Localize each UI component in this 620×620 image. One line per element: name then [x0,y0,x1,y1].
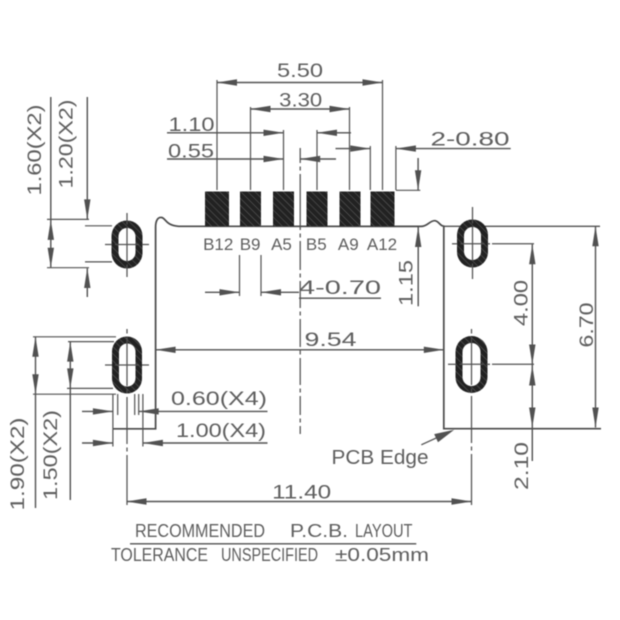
svg-text:0.60(X4): 0.60(X4) [171,389,267,410]
svg-text:1.00(X4): 1.00(X4) [176,421,266,442]
svg-text:B5: B5 [306,235,327,254]
svg-text:B12: B12 [203,235,233,254]
svg-text:UNSPECIFIED: UNSPECIFIED [221,545,318,565]
svg-text:B9: B9 [240,235,261,254]
svg-text:1.90(X2): 1.90(X2) [8,418,29,511]
svg-text:A9: A9 [338,235,359,254]
svg-text:4-0.70: 4-0.70 [299,278,381,299]
svg-text:±0.05mm: ±0.05mm [335,545,429,565]
svg-text:RECOMMENDED: RECOMMENDED [135,521,265,541]
svg-text:2-0.80: 2-0.80 [431,130,510,151]
svg-text:6.70: 6.70 [577,303,598,348]
svg-text:TOLERANCE: TOLERANCE [111,545,208,565]
svg-text:5.50: 5.50 [277,61,323,82]
svg-text:P.C.B.: P.C.B. [290,521,348,541]
svg-text:PCB Edge: PCB Edge [332,447,429,469]
svg-text:1.20(X2): 1.20(X2) [57,100,78,189]
svg-text:A12: A12 [367,235,397,254]
svg-text:1.60(X2): 1.60(X2) [25,105,46,196]
svg-text:LAYOUT: LAYOUT [355,521,413,541]
svg-text:9.54: 9.54 [305,330,358,351]
svg-text:11.40: 11.40 [272,483,331,504]
svg-text:A5: A5 [271,235,292,254]
svg-text:1.15: 1.15 [397,260,418,306]
svg-text:4.00: 4.00 [512,280,533,326]
svg-text:1.50(X2): 1.50(X2) [41,410,62,500]
svg-text:2.10: 2.10 [512,442,533,490]
